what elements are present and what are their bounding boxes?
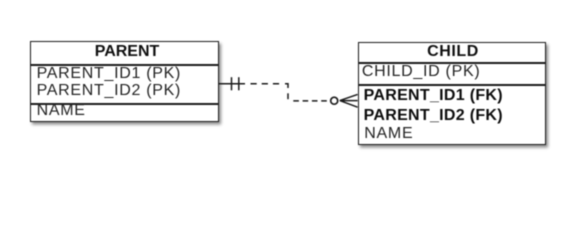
PARENT header divider (30, 64, 219, 66)
wire elbow corner dash (285, 84, 288, 88)
cardinality tick 1 (231, 77, 233, 90)
cardinality circle (zero) (331, 97, 338, 104)
attribute PARENT_ID2 (FK) (364, 108, 503, 124)
attribute PARENT_ID1 (FK) (364, 88, 503, 104)
wire vertical dash (287, 93, 289, 99)
attribute NAME (37, 103, 86, 119)
relationship connector (0, 0, 573, 164)
wire dashed upper horizontal (251, 83, 282, 85)
attribute NAME (child) (364, 126, 413, 142)
crow's foot many (340, 94, 358, 107)
cardinality tick 2 (238, 77, 240, 90)
CHILD divider below CHILD_ID (358, 84, 546, 86)
attribute PARENT_ID2 (PK) (37, 83, 181, 99)
entity PARENT (30, 41, 219, 123)
CHILD title (358, 44, 545, 60)
wire solid segment at PARENT side (219, 83, 246, 85)
wire dashed lower horizontal (293, 100, 327, 102)
attribute PARENT_ID1 (PK) (37, 66, 181, 82)
entity CHILD (358, 42, 546, 145)
CHILD header divider (358, 62, 546, 64)
attribute CHILD_ID (PK) (362, 64, 480, 80)
PARENT title (30, 44, 218, 60)
PARENT divider above NAME (30, 103, 219, 105)
